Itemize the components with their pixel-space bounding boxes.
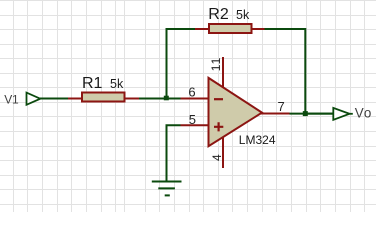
- svg-text:R1: R1: [82, 75, 103, 92]
- resistor R2 body: [209, 24, 252, 33]
- op-amp U1 pin 6 stub: [181, 98, 210, 100]
- terminal V1: [27, 93, 41, 105]
- svg-text:7: 7: [277, 99, 284, 114]
- op-amp U1 pin 4 stub: [222, 136, 224, 168]
- svg-text:6: 6: [188, 85, 195, 100]
- ground: [152, 182, 182, 196]
- wire feedback left vertical to R2: [167, 29, 196, 99]
- wire op-amp output to Vo: [290, 113, 334, 115]
- node junction at R1/pin6: [164, 96, 169, 101]
- wire R2 right to output node: [265, 29, 334, 114]
- svg-text:R2: R2: [208, 6, 229, 23]
- wire pin 5 to ground: [167, 125, 181, 180]
- resistor R1 body: [82, 93, 125, 102]
- resistor R1 pins: [68, 98, 139, 100]
- op-amp U1 body: [209, 78, 263, 146]
- op-amp U1 pin 5 stub: [181, 124, 210, 126]
- terminal Vo: [333, 108, 353, 120]
- node junction at output: [303, 111, 308, 116]
- op-amp U1 pin 7 stub: [260, 113, 290, 115]
- svg-text:LM324: LM324: [239, 133, 276, 147]
- op-amp inverting input minus sign: [214, 98, 223, 100]
- svg-text:11: 11: [209, 57, 223, 72]
- svg-text:V1: V1: [4, 92, 19, 106]
- op-amp U1 pin 11 stub: [222, 57, 224, 88]
- svg-text:5: 5: [189, 112, 196, 127]
- svg-text:5k: 5k: [236, 8, 250, 22]
- svg-text:Vo: Vo: [355, 106, 372, 121]
- wire V1 to op-amp pin 6: [40, 98, 181, 100]
- resistor R2 pins: [195, 28, 265, 30]
- svg-text:5k: 5k: [110, 77, 124, 91]
- op-amp non-inverting input plus sign: [214, 122, 223, 131]
- svg-text:4: 4: [210, 154, 224, 161]
